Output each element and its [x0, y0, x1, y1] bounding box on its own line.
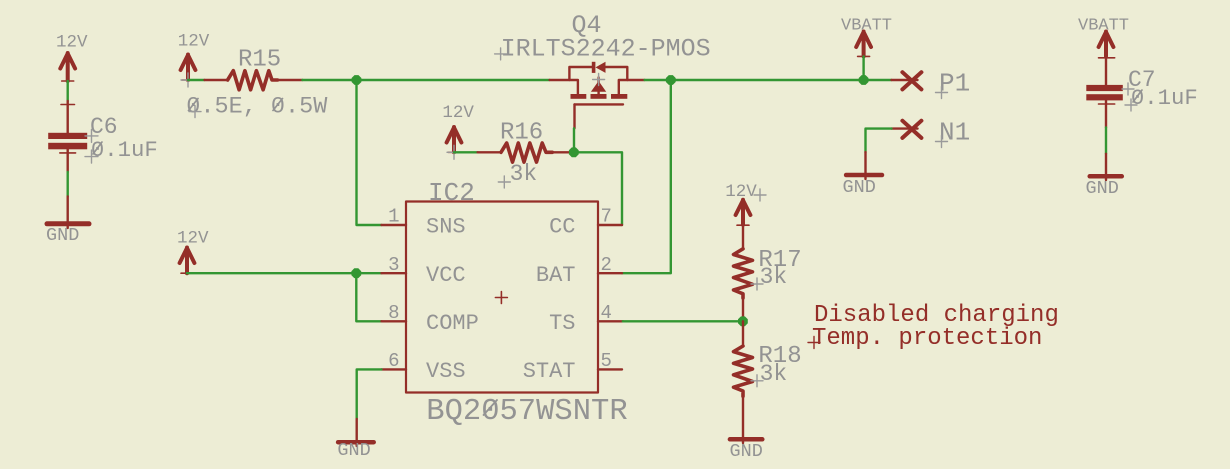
svg-text:P1: P1 [939, 69, 970, 99]
resistor R18 [734, 321, 802, 443]
svg-text:GND: GND [46, 225, 79, 246]
pin 2 BAT [536, 254, 622, 288]
svg-text:3k: 3k [760, 264, 788, 290]
svg-text:R16: R16 [500, 119, 543, 146]
IC IC2 BQ2057WSNTR box [406, 178, 628, 429]
resistor R15 [186, 47, 328, 121]
node junction (TS/R17/R18) [738, 316, 748, 326]
wire C7 bottom [1105, 128, 1107, 154]
svg-text:Temp. protection: Temp. protection [812, 325, 1042, 352]
svg-text:12V: 12V [178, 31, 210, 51]
capacitor C6 [48, 101, 158, 172]
connector P1 [892, 69, 971, 99]
svg-text:0.1uF: 0.1uF [1131, 85, 1198, 111]
svg-text:3k: 3k [760, 361, 788, 387]
wire VCC (pin 3) [187, 272, 382, 274]
svg-text:12V: 12V [442, 103, 474, 123]
svg-text:2: 2 [601, 254, 612, 276]
svg-text:GND: GND [843, 177, 876, 198]
wire SNS (pin 1) [357, 80, 382, 225]
svg-text:BAT: BAT [536, 263, 576, 288]
svg-text:0.5E, 0.5W: 0.5E, 0.5W [186, 94, 328, 121]
supply 12V (VCC branch) [177, 229, 209, 274]
svg-text:VCC: VCC [426, 263, 466, 288]
svg-text:IRLTS2242-PMOS: IRLTS2242-PMOS [501, 35, 711, 64]
wire main net left [188, 79, 205, 81]
pin 8 COMP [382, 302, 479, 336]
supply VBATT (P1 branch) [841, 17, 892, 63]
node junction (gate/R16/CC) [569, 147, 579, 157]
wire VSS to ground [357, 369, 382, 419]
wire C6 top [66, 81, 68, 101]
wire main net (Q4 to P1) [645, 79, 892, 81]
svg-text:GND: GND [337, 440, 370, 461]
node junction (BAT drop) [666, 75, 676, 85]
pin 7 CC [549, 206, 622, 240]
svg-text:4: 4 [601, 302, 612, 324]
wire 12V to R16 [454, 151, 478, 153]
svg-text:3: 3 [388, 254, 399, 276]
svg-text:BQ2057WSNTR: BQ2057WSNTR [426, 395, 627, 429]
svg-text:GND: GND [730, 441, 763, 462]
svg-text:12V: 12V [177, 229, 209, 249]
connector N1 [892, 118, 971, 148]
svg-text:TS: TS [549, 311, 575, 336]
svg-text:VSS: VSS [426, 359, 466, 384]
svg-text:R15: R15 [238, 47, 281, 74]
wire C6 bottom [66, 172, 68, 197]
svg-text:GND: GND [1086, 178, 1119, 199]
node junction (SNS drop) [352, 75, 362, 85]
svg-text:IC2: IC2 [428, 178, 475, 208]
svg-text:STAT: STAT [523, 359, 576, 384]
transistor Q4 IRLTS2242-PMOS [495, 11, 711, 128]
svg-text:1: 1 [388, 206, 399, 228]
svg-text:N1: N1 [939, 118, 970, 148]
supply 12V (R15 branch) [178, 31, 210, 87]
svg-text:VBATT: VBATT [841, 17, 892, 36]
wire gate net [573, 128, 575, 152]
pin 5 STAT [523, 350, 622, 384]
ground GND (C7) [1086, 154, 1122, 199]
wire TS (pin 4) [623, 320, 743, 322]
wire VBATT to node [862, 56, 864, 80]
supply VBATT (C7 branch) [1078, 17, 1129, 57]
resistor R16 [478, 119, 574, 188]
svg-text:COMP: COMP [426, 311, 479, 336]
wire CC (pin 7) [574, 152, 622, 225]
pin 1 SNS [382, 206, 466, 240]
wire COMP (pin 8) [356, 273, 381, 321]
ground GND (R18) [730, 439, 763, 462]
pin 4 TS [549, 302, 623, 336]
supply 12V (left, C6 branch) [56, 33, 88, 82]
svg-text:8: 8 [388, 302, 399, 324]
supply 12V (R17 branch) [725, 182, 766, 225]
svg-text:7: 7 [601, 206, 612, 228]
node junction (VCC/COMP) [351, 268, 361, 278]
ground GND (C6) [46, 197, 89, 247]
wire BAT (pin 2) [622, 80, 671, 273]
pin 6 VSS [382, 350, 466, 384]
resistor R17 [734, 224, 802, 321]
svg-text:0.1uF: 0.1uF [91, 137, 158, 163]
ground GND (IC2) [337, 419, 373, 461]
svg-text:CC: CC [549, 215, 575, 240]
supply 12V (R16 branch) [442, 103, 474, 159]
svg-text:6: 6 [388, 350, 399, 372]
pin 3 VCC [382, 254, 466, 288]
svg-text:SNS: SNS [426, 215, 466, 240]
svg-text:5: 5 [601, 350, 612, 372]
svg-text:3k: 3k [510, 161, 538, 187]
svg-text:12V: 12V [56, 33, 88, 53]
wire main net (R15 to Q4) [302, 79, 549, 81]
capacitor C7 [1086, 51, 1198, 128]
ground GND (N1) [843, 152, 883, 198]
wire N1 to ground [866, 129, 892, 153]
node junction (VBATT/P1) [859, 75, 869, 85]
